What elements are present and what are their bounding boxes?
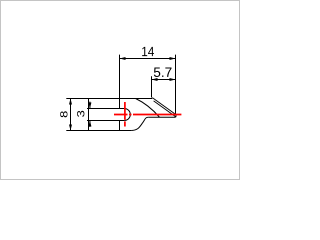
step vertical lower — [119, 121, 121, 131]
dimension line 3 lower tail — [89, 121, 91, 127]
arrow 3 top (points down) — [88, 103, 91, 109]
arrow 14 left — [120, 57, 126, 60]
arrow 8 bottom — [69, 125, 72, 131]
dim text 3 — [77, 111, 84, 117]
insert boundary diagonal — [136, 99, 160, 118]
slot end arc — [124, 109, 130, 121]
dimension line 3 upper tail — [89, 102, 91, 109]
bevel upper line — [152, 98, 175, 115]
part left edge — [88, 98, 90, 131]
arrow 5.7 right — [170, 78, 176, 81]
horizontal centerline — [114, 114, 181, 116]
step vertical upper — [119, 98, 121, 109]
vertical centerline — [124, 102, 126, 127]
extension line 5.7 left — [151, 76, 153, 97]
extension line 8 bottom — [66, 130, 88, 132]
slot bottom edge — [87, 120, 124, 122]
dim text 5.7 — [154, 68, 172, 77]
bevel lower line — [154, 101, 177, 117]
slot top edge — [87, 108, 124, 110]
arrow 5.7 left — [152, 78, 158, 81]
dimension line 14 — [120, 58, 176, 60]
dimension line 8 — [70, 99, 72, 131]
bottom S-curve — [131, 117, 148, 130]
extension line 14/5.7 right — [175, 55, 177, 115]
part bottom edge — [89, 130, 132, 132]
dim text 14 — [142, 47, 154, 56]
dim text 8 — [60, 111, 67, 117]
bottom right edge — [148, 114, 176, 117]
part top edge — [89, 98, 153, 100]
frame border — [1, 1, 240, 180]
arrow 14 right — [170, 57, 176, 60]
dimension line 5.7 — [152, 79, 176, 81]
extension line 8 top — [66, 98, 88, 100]
arrow 3 bottom (points up) — [88, 121, 91, 127]
arrow 8 top — [69, 99, 72, 105]
extension line 14 left — [119, 55, 121, 98]
